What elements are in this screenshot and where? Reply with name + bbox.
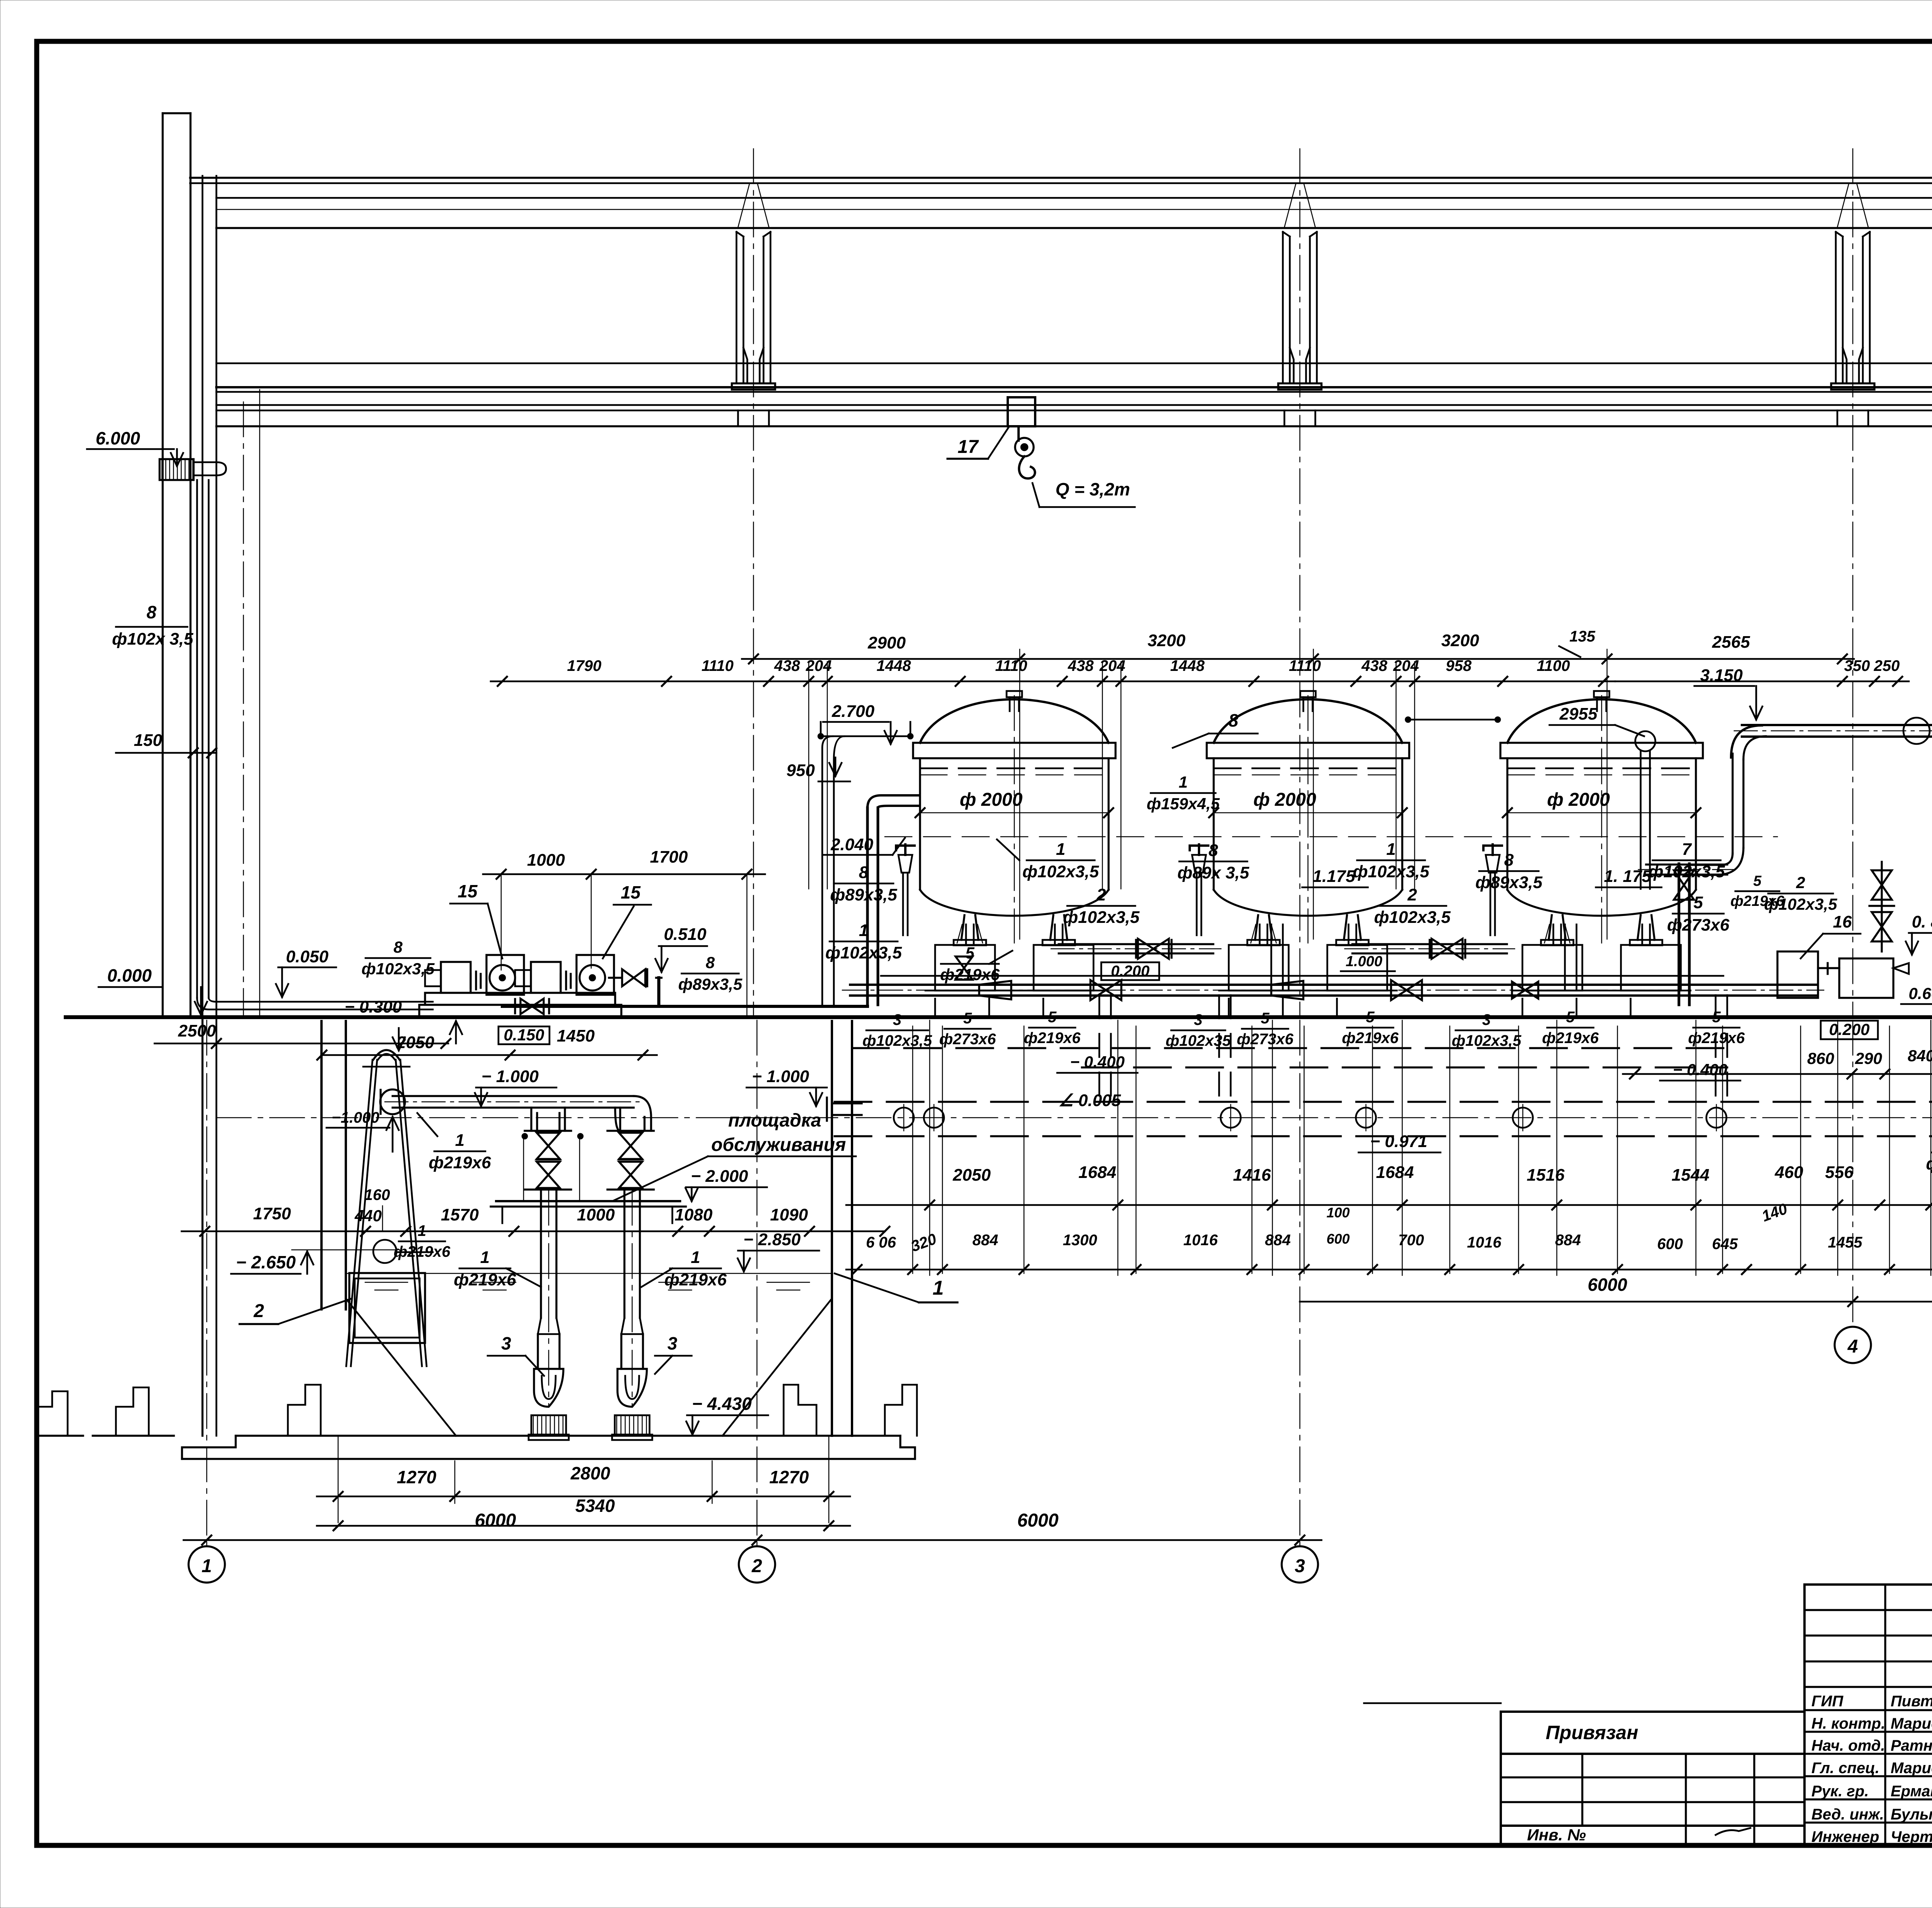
- tank level dashed line: [1214, 768, 1402, 769]
- svg-text:2: 2: [1407, 885, 1417, 904]
- svg-text:ф159х4,5: ф159х4,5: [1147, 795, 1220, 813]
- valve T1-T2: [1138, 939, 1153, 959]
- svg-text:ГИП: ГИП: [1811, 1693, 1844, 1710]
- svg-text:8: 8: [146, 602, 156, 622]
- pump unit 1 (pos 15): [441, 962, 471, 993]
- svg-text:Марионков: Марионков: [1891, 1760, 1932, 1777]
- svg-text:− 1.000: − 1.000: [481, 1067, 539, 1086]
- svg-text:1448: 1448: [1170, 657, 1205, 674]
- svg-text:ф102х3,5: ф102х3,5: [825, 943, 902, 962]
- grid bubble 4: [1835, 1327, 1871, 1363]
- tank 1 (hydrocyclone vessel ф2000): [920, 700, 1109, 743]
- svg-text:250: 250: [1874, 657, 1900, 674]
- svg-text:3: 3: [1295, 1556, 1305, 1576]
- svg-text:1: 1: [202, 1556, 212, 1576]
- below-floor dashed pipe band: [852, 1047, 1731, 1049]
- svg-text:8: 8: [1228, 710, 1238, 730]
- svg-text:Марионков: Марионков: [1891, 1715, 1932, 1732]
- pit right wall: [831, 1021, 833, 1436]
- line left of small table: [1364, 1702, 1501, 1704]
- svg-text:1110: 1110: [701, 657, 733, 674]
- column on axis at x=4795: [1835, 232, 1837, 383]
- svg-text:ф102х3,5: ф102х3,5: [862, 1032, 932, 1049]
- svg-text:1000: 1000: [527, 851, 565, 870]
- svg-text:7: 7: [1682, 840, 1692, 859]
- extension verticals for dim rows: [929, 1020, 930, 1275]
- flange circles on buried pipe: [894, 1108, 914, 1128]
- small valve under tank1: [956, 957, 973, 968]
- labels 1/ф219x6 on pump columns: [373, 1240, 396, 1263]
- pipe ф219x6 T2-T3: [1352, 943, 1507, 945]
- wall pipe at 950 level: [822, 736, 833, 1005]
- svg-text:4: 4: [1847, 1336, 1858, 1357]
- svg-text:1016: 1016: [1467, 1234, 1502, 1251]
- left wall: [202, 176, 204, 1017]
- discharge drop pipe + 0.510: [656, 977, 662, 979]
- svg-text:290: 290: [1855, 1049, 1882, 1067]
- svg-text:− 2.650: − 2.650: [236, 1252, 296, 1272]
- svg-text:1: 1: [933, 1277, 944, 1299]
- tank legs: [961, 915, 964, 940]
- svg-text:ф 2000: ф 2000: [960, 790, 1023, 810]
- riser elbow down to tanks: [1731, 754, 1733, 853]
- svg-text:1.000: 1.000: [1345, 953, 1382, 970]
- svg-text:1270: 1270: [397, 1467, 437, 1487]
- svg-text:3: 3: [1194, 1011, 1202, 1028]
- svg-text:Инженер: Инженер: [1811, 1828, 1879, 1845]
- svg-text:2500: 2500: [178, 1021, 216, 1040]
- svg-text:100: 100: [1327, 1205, 1350, 1220]
- svg-text:1110: 1110: [1289, 657, 1321, 674]
- svg-text:1080: 1080: [675, 1205, 713, 1224]
- svg-text:Чертков: Чертков: [1891, 1828, 1932, 1845]
- svg-text:600: 600: [1657, 1236, 1683, 1253]
- dim row 860 290 840 1900 ...: [1623, 1073, 1932, 1075]
- tap at tank left: [896, 844, 915, 855]
- svg-text:8: 8: [1504, 851, 1514, 870]
- svg-text:0.000: 0.000: [107, 965, 152, 985]
- svg-text:ф 2000: ф 2000: [1547, 790, 1610, 810]
- svg-text:ф273х6: ф273х6: [1667, 916, 1730, 934]
- svg-text:Рук. гр.: Рук. гр.: [1811, 1783, 1869, 1800]
- pipe support verticals on collector: [934, 999, 936, 1016]
- reducer 2 on collector: [1271, 981, 1303, 999]
- 6000 dim right with bubbles 4,5: [1300, 1301, 1932, 1303]
- svg-text:ф219х6: ф219х6: [664, 1270, 727, 1289]
- svg-text:5: 5: [1753, 873, 1762, 889]
- tank legs: [1549, 915, 1552, 940]
- svg-text:135: 135: [1570, 628, 1595, 645]
- drop pipes from tank bottom: [965, 924, 967, 945]
- roof slab lower line: [216, 197, 1932, 199]
- svg-text:6000: 6000: [1017, 1510, 1059, 1531]
- staff rows horizontals: [1804, 1609, 1932, 1611]
- svg-text:8: 8: [1209, 841, 1218, 860]
- svg-text:ф89х3,5: ф89х3,5: [1475, 873, 1543, 892]
- main floor line 0.000: [66, 1015, 1932, 1019]
- svg-text:∠ 0.005: ∠ 0.005: [1058, 1091, 1121, 1110]
- svg-text:1750: 1750: [253, 1204, 291, 1223]
- svg-text:1: 1: [455, 1131, 464, 1150]
- svg-text:ф219х6: ф219х6: [1688, 1030, 1745, 1047]
- svg-text:1: 1: [691, 1248, 700, 1267]
- 0.200 box right: [1821, 1021, 1878, 1039]
- crane rail line: [216, 425, 1932, 427]
- valve stack above pump16: [1881, 862, 1883, 951]
- svg-text:2: 2: [253, 1301, 264, 1321]
- svg-text:600: 600: [1327, 1231, 1350, 1247]
- svg-text:− 4.430: − 4.430: [692, 1394, 752, 1414]
- svg-text:17: 17: [957, 437, 979, 457]
- suction pipe from wall with valves: [520, 999, 532, 1014]
- svg-text:2900: 2900: [867, 633, 906, 652]
- svg-text:350: 350: [1844, 657, 1870, 674]
- valve 2 over pump16: [1872, 912, 1892, 927]
- hatch support block on chimney (6.000): [160, 459, 194, 480]
- svg-text:3: 3: [893, 1011, 901, 1028]
- svg-text:160: 160: [364, 1186, 390, 1203]
- overhead pipe 2/ф219x6 at 3.350: [1742, 724, 1932, 726]
- dome top fitting: [1594, 691, 1609, 697]
- svg-text:6 06: 6 06: [866, 1234, 896, 1251]
- svg-text:1455: 1455: [1828, 1234, 1863, 1251]
- svg-text:3: 3: [501, 1333, 511, 1353]
- svg-text:5: 5: [1712, 1009, 1721, 1026]
- svg-text:Нач. отд.: Нач. отд.: [1811, 1737, 1885, 1754]
- wall axis 1 dash line: [243, 402, 244, 1016]
- svg-text:438: 438: [1068, 657, 1094, 674]
- svg-text:Н. контр.: Н. контр.: [1811, 1715, 1885, 1732]
- valve on ф273x6: [1674, 870, 1694, 885]
- svg-text:6000: 6000: [475, 1510, 516, 1531]
- platform hangers: [523, 1135, 524, 1201]
- svg-text:ф89х 3,5: ф89х 3,5: [1177, 863, 1249, 882]
- bold pump discharge pipe ф89x3,5: [502, 1005, 867, 1008]
- svg-text:площадка: площадка: [728, 1110, 821, 1131]
- svg-text:1300: 1300: [1063, 1232, 1097, 1249]
- ф2000 dim inside tank: [1507, 812, 1696, 814]
- svg-text:150: 150: [134, 731, 162, 750]
- svg-text:− 1.000: − 1.000: [752, 1067, 810, 1086]
- water level left compartment: [292, 1249, 396, 1251]
- svg-text:ф102х3,5: ф102х3,5: [1022, 862, 1099, 881]
- svg-text:3: 3: [667, 1333, 677, 1353]
- svg-text:1448: 1448: [877, 657, 912, 674]
- flange circles on overhead pipe: [1903, 718, 1930, 744]
- svg-text:6000: 6000: [1588, 1275, 1628, 1295]
- svg-text:2565: 2565: [1712, 633, 1750, 652]
- dim row 606 320 884 1300 1016 884 ...: [846, 1269, 1932, 1271]
- funnel under tap: [1192, 855, 1206, 873]
- pipe pos8 descending inside wall: [196, 480, 198, 998]
- svg-text:1790: 1790: [567, 657, 602, 674]
- svg-text:438: 438: [1361, 657, 1388, 674]
- tank center axis: [1308, 696, 1309, 943]
- svg-text:3200: 3200: [1441, 631, 1479, 650]
- svg-text:2050: 2050: [952, 1166, 991, 1185]
- svg-text:1544: 1544: [1672, 1166, 1709, 1185]
- crane runway beam lines: [216, 363, 1932, 364]
- svg-text:Инв. №: Инв. №: [1527, 1826, 1586, 1844]
- svg-text:460: 460: [1774, 1163, 1803, 1182]
- svg-text:8: 8: [393, 938, 403, 956]
- A-frame support: [346, 1060, 377, 1366]
- pump pos 16: [1777, 951, 1818, 998]
- svg-text:438: 438: [774, 657, 800, 674]
- svg-text:1700: 1700: [650, 848, 688, 866]
- ф2000 dim inside tank: [1214, 812, 1402, 814]
- small table привязан: [1501, 1711, 1804, 1713]
- roof beam bottom: [216, 227, 1932, 229]
- column on axis at x=3364: [1282, 232, 1284, 383]
- svg-text:Ермакава: Ермакава: [1891, 1783, 1932, 1800]
- -0.300 arrow to A-frame: [398, 1028, 400, 1050]
- crane trolley pos 17: [1008, 397, 1035, 426]
- equipment pedestals under tank: [1522, 945, 1582, 991]
- svg-text:− 0.400: − 0.400: [1673, 1060, 1727, 1079]
- svg-text:2: 2: [752, 1556, 762, 1576]
- svg-text:840: 840: [1908, 1047, 1932, 1065]
- svg-text:645: 645: [1712, 1236, 1738, 1253]
- svg-text:3.150: 3.150: [1700, 666, 1743, 685]
- equipment pedestals under tank: [1229, 945, 1289, 991]
- svg-text:ф273х6: ф273х6: [939, 1031, 996, 1048]
- svg-text:Булычева: Булычева: [1891, 1806, 1932, 1823]
- dim rows 2050 1684 1416 1684 1516 1544 460 556: [846, 1204, 1932, 1206]
- svg-text:ф102х3,5: ф102х3,5: [1452, 1032, 1522, 1049]
- tank pos 2 in pit: [349, 1273, 425, 1343]
- svg-text:1000: 1000: [577, 1205, 615, 1224]
- svg-text:0.050: 0.050: [286, 947, 329, 966]
- svg-text:6.000: 6.000: [95, 428, 140, 448]
- pipe through right pit wall: [832, 1102, 862, 1104]
- svg-text:Вед. инж.: Вед. инж.: [1811, 1806, 1884, 1823]
- svg-text:ф273х6: ф273х6: [1237, 1031, 1294, 1048]
- svg-text:440: 440: [354, 1207, 382, 1225]
- drop pipes from tank bottom: [1553, 924, 1554, 945]
- svg-text:1270: 1270: [769, 1467, 809, 1487]
- svg-text:16: 16: [1833, 912, 1852, 931]
- svg-text:1100: 1100: [1537, 657, 1570, 674]
- svg-text:3200: 3200: [1148, 631, 1185, 650]
- svg-text:958: 958: [1446, 657, 1472, 674]
- title block main frame: [1804, 1585, 1932, 1845]
- svg-text:860: 860: [1807, 1049, 1834, 1067]
- far-left footing steps: [37, 1391, 68, 1436]
- pump columns pos 3: [540, 1190, 542, 1318]
- valve on collector 3: [1512, 982, 1525, 999]
- svg-text:1684: 1684: [1078, 1163, 1116, 1182]
- svg-text:0.510: 0.510: [664, 925, 707, 944]
- tank 3 (hydrocyclone vessel ф2000): [1507, 700, 1696, 743]
- svg-text:3: 3: [1482, 1011, 1491, 1028]
- svg-text:1: 1: [1386, 840, 1396, 859]
- second collector line: [881, 975, 1723, 977]
- svg-text:1684: 1684: [1376, 1163, 1414, 1182]
- svg-text:2: 2: [1796, 873, 1805, 892]
- grid bubble 2: [739, 1546, 775, 1583]
- grid bubble 3: [1282, 1546, 1318, 1583]
- dashed vertical connectors below floor: [1099, 995, 1100, 1102]
- pump foundation: [425, 993, 615, 1005]
- service platform: [496, 1200, 680, 1202]
- valve T2-T3: [1432, 939, 1447, 959]
- svg-text:0.200: 0.200: [1111, 963, 1150, 980]
- pipe stub at 6.000: [194, 461, 216, 463]
- svg-text:ф102х 3,5: ф102х 3,5: [112, 630, 194, 648]
- tank level dashed line: [920, 768, 1109, 769]
- bold vertical pipe left of tank1: [866, 808, 869, 1005]
- svg-text:ф219х6: ф219х6: [429, 1153, 491, 1172]
- svg-text:5: 5: [1048, 1009, 1057, 1026]
- svg-text:0.150: 0.150: [503, 1026, 544, 1044]
- discharge valves after pump2: [609, 977, 621, 979]
- svg-text:− 0.400: − 0.400: [1070, 1053, 1124, 1071]
- bold vertical ф273x6 right of tank3: [1678, 864, 1680, 1005]
- pipe ф219x6 T1-T2: [1059, 943, 1213, 945]
- svg-text:ф219х6: ф219х6: [1542, 1030, 1599, 1047]
- svg-text:556: 556: [1825, 1163, 1854, 1182]
- svg-text:884: 884: [1555, 1232, 1581, 1249]
- equipment pedestals under tank: [935, 945, 995, 991]
- svg-text:1: 1: [480, 1248, 490, 1267]
- svg-text:ф 2000: ф 2000: [1253, 790, 1316, 810]
- svg-text:1090: 1090: [770, 1205, 808, 1224]
- svg-text:8: 8: [706, 953, 715, 972]
- tank legs: [1255, 915, 1258, 940]
- svg-text:Гл. спец.: Гл. спец.: [1811, 1760, 1879, 1777]
- tank 2 (hydrocyclone vessel ф2000): [1214, 700, 1402, 743]
- svg-text:1.175: 1.175: [1313, 867, 1355, 886]
- dim bracket above tank1: [819, 735, 912, 737]
- svg-text:950: 950: [786, 761, 815, 780]
- pit inner wall left: [320, 1021, 323, 1309]
- svg-text:1110: 1110: [995, 657, 1027, 674]
- svg-text:2955: 2955: [1559, 705, 1597, 723]
- svg-text:−1.000: −1.000: [332, 1109, 379, 1126]
- grid bubble 1: [189, 1546, 225, 1583]
- svg-text:5: 5: [1566, 1009, 1575, 1026]
- axes to bubbles: [206, 1020, 207, 1546]
- funnel under tap: [898, 855, 912, 873]
- tank center axis: [1014, 696, 1015, 943]
- svg-text:2.700: 2.700: [832, 702, 875, 721]
- svg-text:1: 1: [1056, 840, 1065, 859]
- valve 1 over pump16: [1872, 870, 1892, 885]
- svg-text:− 0.971: − 0.971: [1370, 1132, 1427, 1151]
- valve on collector 2: [1391, 980, 1406, 1000]
- svg-text:1516: 1516: [1527, 1166, 1565, 1185]
- svg-text:− 0.300: − 0.300: [345, 997, 402, 1016]
- svg-text:1570: 1570: [441, 1205, 479, 1224]
- svg-text:ф219х6: ф219х6: [1730, 893, 1784, 909]
- dome top fitting: [1007, 691, 1022, 697]
- svg-text:0.606: 0.606: [1908, 984, 1932, 1003]
- svg-text:Пивторак: Пивторак: [1891, 1693, 1932, 1710]
- tank level dashed line: [1507, 768, 1696, 769]
- svg-text:5: 5: [1694, 893, 1703, 912]
- dim row 1790 1110 438 204 1448 ...: [491, 681, 1615, 683]
- svg-text:1016: 1016: [1184, 1232, 1218, 1249]
- svg-text:0. 8 56: 0. 8 56: [1912, 912, 1932, 931]
- tap at tank left: [1483, 844, 1502, 855]
- drop pipes from tank bottom: [1259, 924, 1261, 945]
- building roof upper chord: [190, 177, 1932, 179]
- svg-text:15: 15: [457, 881, 478, 901]
- bold collector pipe along floor: [850, 984, 1816, 986]
- foundations pads in pit: [288, 1385, 321, 1436]
- svg-text:5: 5: [1366, 1009, 1375, 1026]
- valve on collector 1: [1090, 980, 1106, 1000]
- svg-text:5: 5: [1261, 1010, 1270, 1027]
- svg-text:1: 1: [1179, 773, 1187, 791]
- svg-text:ф102х3,5: ф102х3,5: [1063, 908, 1140, 927]
- tank center axis: [1601, 696, 1602, 943]
- svg-text:ф102х35: ф102х35: [1166, 1032, 1231, 1049]
- valve stacks in pit: [525, 1130, 571, 1132]
- pipe branches down to pumps: [531, 1108, 565, 1131]
- dome top fitting: [1300, 691, 1316, 697]
- svg-text:15: 15: [621, 882, 641, 902]
- svg-text:884: 884: [1265, 1232, 1291, 1249]
- risers tank2/tank3 tie-ins: [1270, 924, 1272, 989]
- svg-text:обслуживания: обслуживания: [711, 1135, 846, 1155]
- svg-text:ф219х6: ф219х6: [1342, 1030, 1399, 1047]
- svg-text:ф102х3,5: ф102х3,5: [1353, 862, 1430, 881]
- continuous dashed liquid level across tanks: [885, 836, 1777, 837]
- svg-text:ф89х3,5: ф89х3,5: [830, 885, 897, 904]
- svg-text:ф89х3,5: ф89х3,5: [678, 975, 742, 993]
- pipe to riser from T3: [1646, 863, 1727, 865]
- svg-text:884: 884: [973, 1232, 998, 1249]
- svg-text:5340: 5340: [575, 1496, 615, 1516]
- svg-text:ф102х3,5: ф102х3,5: [1374, 908, 1451, 927]
- reducer on collector: [979, 981, 1011, 999]
- funnel under tap: [1486, 855, 1500, 873]
- level 0.200 mid: [1101, 962, 1159, 980]
- svg-text:− 2.000: − 2.000: [691, 1167, 748, 1186]
- svg-text:ф219х6: ф219х6: [1024, 1030, 1081, 1047]
- dim bracket above tank2 right: [1406, 719, 1499, 721]
- svg-text:5: 5: [963, 1010, 972, 1027]
- svg-text:Привязан: Привязан: [1546, 1722, 1638, 1743]
- svg-text:2800: 2800: [570, 1463, 611, 1483]
- left chimney column: [162, 113, 163, 1016]
- pit left outer wall: [201, 1017, 203, 1436]
- svg-text:ф219х6: ф219х6: [454, 1270, 516, 1289]
- pit bottom slab: [236, 1435, 900, 1437]
- water level in pit: [346, 1273, 832, 1274]
- tap at tank left: [1190, 844, 1208, 855]
- svg-text:0.200: 0.200: [1829, 1020, 1869, 1038]
- crane hook: [1019, 456, 1035, 478]
- svg-text:Ратников: Ратников: [1891, 1737, 1932, 1754]
- slope diagonals: [346, 1299, 456, 1436]
- svg-text:1450: 1450: [557, 1026, 595, 1045]
- column on axis at x=1950: [736, 232, 738, 383]
- svg-text:− 2.850: − 2.850: [743, 1230, 801, 1249]
- pump unit 2 (pos 15): [531, 962, 561, 993]
- svg-text:2: 2: [1096, 885, 1106, 904]
- svg-text:ф102х3,5: ф102х3,5: [362, 960, 435, 978]
- pit pipe ф219x6 horizontal: [380, 1089, 405, 1114]
- ф2000 dim inside tank: [920, 812, 1109, 814]
- svg-text:Q = 3,2т: Q = 3,2т: [1055, 479, 1130, 499]
